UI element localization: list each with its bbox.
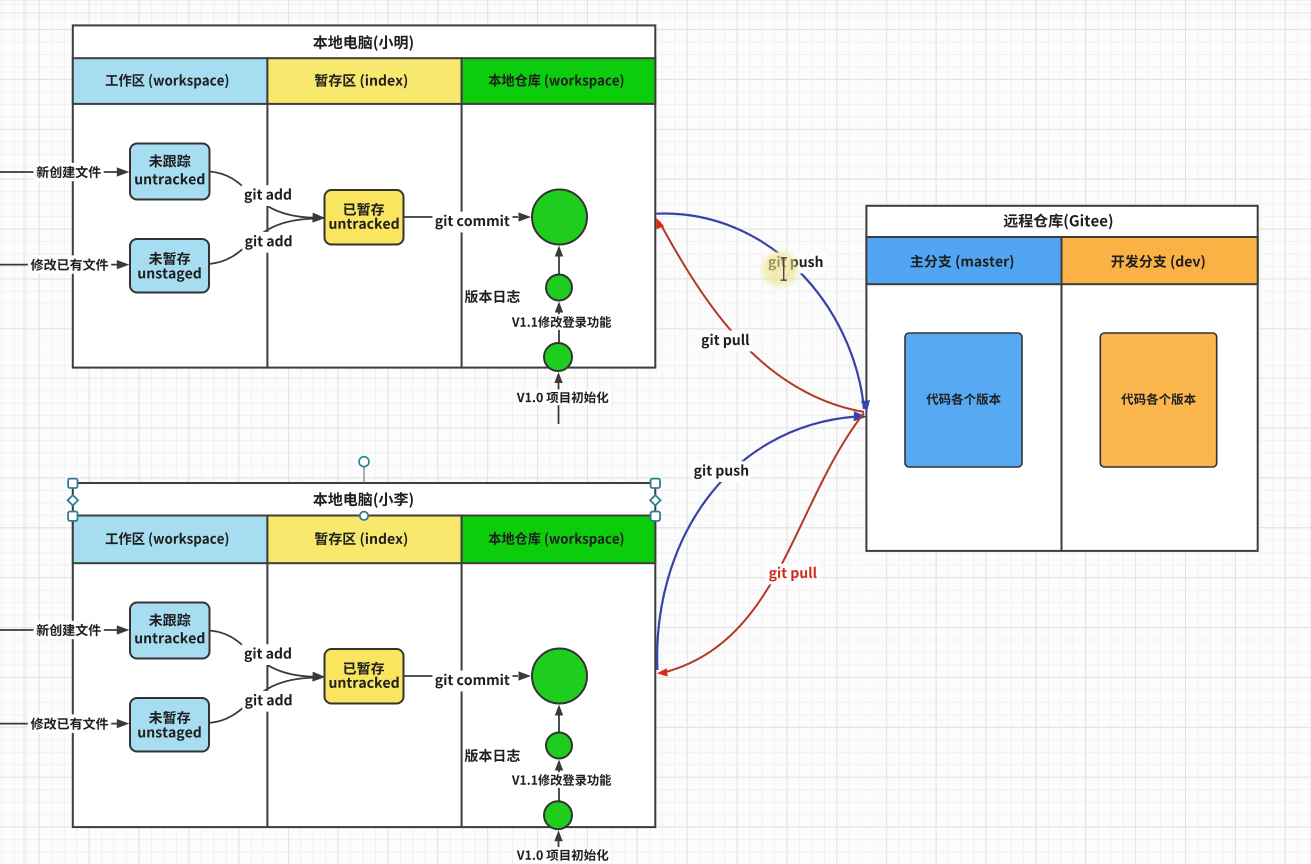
- label git push (top): [766, 253, 826, 274]
- local-box-B 本地电脑(小李): index header cell: [267, 516, 461, 564]
- selection handle square bottom-left: [68, 512, 77, 521]
- remote-box: dev header cell: [1062, 237, 1258, 284]
- label git push (bottom): [691, 461, 751, 482]
- local-box-A 本地电脑(小明): header text 工作区: [106, 74, 229, 89]
- local-box-B: commit circle bottom: [544, 801, 572, 829]
- local-box-B: text 未跟踪: [149, 613, 191, 626]
- local-box-A 本地电脑(小明): index header cell: [267, 58, 461, 104]
- local-box-B: text unstaged: [138, 726, 200, 741]
- local-box-A: label git add (lower): [242, 232, 294, 253]
- local-box-A 本地电脑(小明): column divider 2: [461, 104, 463, 368]
- remote-box: title 远程仓库(Gitee): [1004, 214, 1113, 230]
- local-box-A: text 未跟踪: [149, 154, 191, 167]
- local-box-A: box 未暂存/unstaged: [130, 239, 209, 293]
- local-box-B: label V1.0 项目初始化: [515, 847, 611, 863]
- local-box-A 本地电脑(小明): header text 暂存区: [315, 74, 407, 89]
- local-box-B: arrow 新创建文件 line: [0, 625, 129, 634]
- local-box-A: commit circle big: [532, 190, 587, 245]
- local-box-A: wire V1.0 arrow below: [554, 372, 562, 424]
- selection handle diamond left-mid: [68, 495, 78, 505]
- local-box-B: label 修改已有文件: [28, 714, 111, 732]
- local-box-B 本地电脑(小李): title text: [313, 492, 413, 508]
- local-box-A: wire mid→big arrow: [555, 246, 563, 275]
- local-box-B: text untracked: [135, 632, 204, 643]
- wire git push curve (bottom, blue): [657, 417, 857, 671]
- local-box-A: arrow 修改已有文件 line: [0, 260, 129, 269]
- remote-box 远程仓库(Gitee): outer frame: [866, 206, 1257, 551]
- label git pull (top): [699, 331, 753, 352]
- local-box-A: label 版本日志: [465, 290, 520, 303]
- local-box-B: wire git commit line: [404, 671, 532, 680]
- local-box-B 本地电脑(小李): header text 本地仓库: [489, 532, 624, 547]
- selection handle square bottom-right: [651, 512, 660, 521]
- local-box-B: wire git add curve from untracked: [210, 631, 315, 677]
- local-box-B: label V1.1修改登录功能: [510, 772, 613, 788]
- arrowhead git push bottom into remote: [854, 411, 867, 421]
- local-box-B: wire V1.0 arrow below: [554, 830, 562, 862]
- local-box-A 本地电脑(小明): local-repo header cell: [462, 58, 656, 104]
- remote-box: master version box: [905, 333, 1022, 467]
- local-box-A: box 已暂存/untracked (staged): [325, 190, 404, 245]
- local-box-B 本地电脑(小李): header text 工作区: [106, 532, 229, 547]
- selection handle circle bottom-mid: [360, 512, 368, 520]
- local-box-B: label 版本日志: [465, 749, 520, 762]
- remote-box: header text 开发分支 (dev): [1111, 255, 1204, 270]
- local-box-B: commit circle big: [532, 649, 587, 704]
- local-box-A: wire bottom→mid arrow: [555, 302, 563, 344]
- local-box-A: label 新创建文件: [34, 163, 104, 181]
- local-box-A: text unstaged: [138, 267, 200, 282]
- local-box-B: commit circle mid: [546, 733, 572, 759]
- remote-box: header text 主分支 (master): [911, 255, 1014, 270]
- local-box-A 本地电脑(小明): title text: [313, 35, 413, 51]
- text cursor I-beam: [781, 258, 787, 280]
- remote-box: dev version box: [1100, 333, 1216, 467]
- wire git pull curve (bottom, red): [657, 413, 864, 677]
- local-box-A: box 未跟踪/untracked: [130, 144, 210, 200]
- local-box-B 本地电脑(小李): column divider 1: [266, 563, 268, 827]
- selection handle diamond right-mid: [650, 495, 660, 505]
- local-box-B: arrowhead into staged box: [312, 672, 325, 682]
- local-box-B: text 已暂存: [344, 662, 384, 675]
- selection handle square top-left: [68, 479, 77, 488]
- local-box-B 本地电脑(小李): workspace header cell: [73, 516, 268, 564]
- local-box-B: label 新创建文件: [34, 621, 104, 639]
- local-box-A: text 已暂存: [344, 203, 384, 216]
- selection handle square top-right: [651, 479, 660, 488]
- local-box-A 本地电脑(小明): header text 本地仓库: [489, 74, 624, 89]
- local-box-A: commit circle mid: [546, 275, 572, 301]
- remote-box: column divider: [1061, 284, 1063, 551]
- local-box-A: text untracked (staged): [330, 218, 399, 229]
- remote-box: master header cell: [866, 237, 1061, 284]
- arrowhead git push top into remote: [861, 400, 870, 412]
- local-box-B: box 已暂存/untracked (staged): [325, 649, 404, 704]
- local-box-B 本地电脑(小李): header text 暂存区: [315, 532, 407, 547]
- local-box-B: text untracked (staged): [330, 677, 399, 688]
- local-box-B: label git commit: [432, 671, 512, 692]
- local-box-B 本地电脑(小李): outer frame: [73, 483, 656, 827]
- remote-box: text 代码各个版本 (master): [926, 393, 1001, 405]
- local-box-B: box 未跟踪/untracked: [130, 603, 210, 659]
- local-box-B: wire mid→big arrow: [555, 705, 563, 733]
- local-box-A: commit circle bottom: [544, 343, 572, 371]
- local-box-A: label git add (upper): [242, 185, 294, 206]
- local-box-A: wire git commit line: [404, 212, 532, 221]
- local-box-A: label 修改已有文件: [28, 255, 111, 273]
- local-box-A: text 未暂存: [149, 252, 190, 265]
- local-box-A: arrow 新创建文件 line: [0, 167, 129, 176]
- local-box-A: label git commit: [432, 212, 512, 233]
- local-box-A: label V1.1修改登录功能: [510, 314, 613, 330]
- local-box-B: text 未暂存: [149, 711, 190, 724]
- local-box-B: box 未暂存/unstaged: [130, 698, 209, 752]
- local-box-B: wire git add curve from unstaged: [209, 678, 314, 723]
- selection rotation handle: [359, 457, 369, 483]
- label git pull (bottom, red): [766, 564, 820, 585]
- local-box-B: label git add (upper): [242, 644, 294, 665]
- local-box-A 本地电脑(小明): column divider 1: [266, 104, 268, 368]
- local-box-B: arrow 修改已有文件 line: [0, 719, 129, 728]
- local-box-A: arrowhead into staged box: [312, 213, 325, 223]
- local-box-A 本地电脑(小明): outer frame: [73, 25, 656, 367]
- local-box-A: label V1.0 项目初始化: [515, 389, 611, 405]
- local-box-A 本地电脑(小明): workspace header cell: [73, 58, 268, 104]
- local-box-B: wire bottom→mid arrow: [555, 760, 563, 802]
- local-box-B 本地电脑(小李): local-repo header cell: [462, 516, 656, 564]
- local-box-B 本地电脑(小李): column divider 2: [461, 563, 463, 827]
- local-box-A: text untracked: [135, 173, 204, 184]
- local-box-A: wire git add curve from untracked: [210, 172, 315, 218]
- remote-box: text 代码各个版本 (dev): [1121, 393, 1196, 405]
- wire git push curve (top, blue): [656, 214, 864, 409]
- wire git pull curve (top, red): [656, 218, 864, 412]
- local-box-B: label git add (lower): [242, 691, 294, 712]
- local-box-A: wire git add curve from unstaged: [209, 219, 314, 264]
